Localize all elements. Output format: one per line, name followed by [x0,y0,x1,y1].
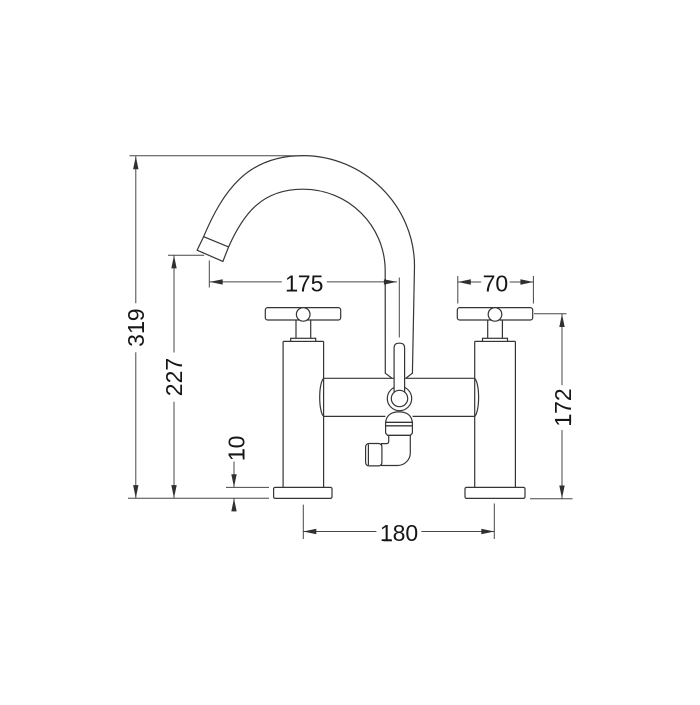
arrowhead 70 left [458,279,471,284]
dim 172 bottom extension line [530,498,573,500]
right handle stem [488,320,503,338]
svg-text:70: 70 [483,270,509,296]
diverter lever [394,343,405,392]
dim 180 extension lines [303,504,494,540]
hose outlet face line [367,444,369,465]
dim 175 horizontal line [210,281,397,283]
right handle cross bar [457,308,532,320]
svg-text:180: 180 [380,520,418,546]
dim 10 stem above [233,462,235,488]
left handle hub circle [296,308,310,322]
svg-text:172: 172 [550,388,576,426]
left stem collar [291,338,316,341]
dim 319 top extension line [130,155,303,157]
spout (swan-neck tube) [204,156,415,374]
label 175 digit-1 foot serif [289,290,297,292]
outlet collar lower ring [386,426,413,436]
label 10 digit-1 foot serif [243,449,245,457]
right handle hub circle [488,308,502,322]
left pillar [283,341,324,487]
shower hose elbow [382,435,411,465]
arrowhead 10 down (above) [231,474,236,487]
dim 70 extension lines [458,276,534,304]
svg-text:10: 10 [223,436,249,462]
svg-text:227: 227 [161,358,187,396]
dim 70 horizontal line [458,281,534,283]
svg-text:319: 319 [123,309,149,347]
diverter outer circle [387,386,411,410]
left handle cross bar [265,308,340,320]
arrowhead 227 down [171,485,176,498]
dim 175 left extension line [208,261,210,288]
dim 172 top extension line [534,313,567,315]
arrowhead 175 left [210,279,223,284]
dim 10 tail below [233,498,235,511]
diverter inner circle [391,390,407,406]
dim 227 top extension line [168,254,204,256]
spout base chamfers into body [385,373,412,378]
right stem collar [483,338,508,341]
label 172 digit-1 foot serif [569,415,571,423]
arrowhead 172 up [559,314,564,327]
left base flange [274,487,332,498]
spout aerator tip band [197,237,229,262]
arrowhead 180 right [481,529,494,534]
arrowhead 227 up [171,255,176,268]
arrowhead 319 up [133,156,138,169]
dim 172 vertical line [561,314,563,499]
left handle stem [296,320,311,338]
arrowhead 10 up (below) [231,498,236,511]
hose outlet connector [366,444,382,466]
arrowhead 172 down [559,486,564,499]
svg-text:175: 175 [285,270,323,296]
dim 319 vertical line [135,156,137,498]
arrowhead 319 down [133,485,138,498]
dim 227 vertical line [173,255,175,498]
right base flange [465,487,525,498]
outlet collar thin ring [386,422,413,426]
arrowhead 175 right [384,279,397,284]
label 180 digit-1 foot serif [384,540,392,542]
dim 180 horizontal line [303,531,494,533]
body (central horizontal barrel) [320,378,479,416]
arrowhead 180 left [303,529,316,534]
label 319 digit-1 foot serif [142,322,144,330]
dim 10 upper extension line [226,486,269,488]
outlet collar dome [386,412,413,423]
arrowhead 70 right [520,279,533,284]
dim 175 right extension line [398,278,400,338]
right pillar [475,341,516,487]
dim bottom extension line (319/227/10) [128,497,269,499]
